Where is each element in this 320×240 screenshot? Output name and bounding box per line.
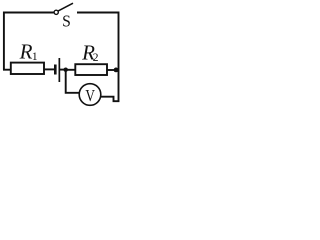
node B junction dot <box>114 68 119 73</box>
svg-text:S: S <box>62 11 71 31</box>
resistor R2 box <box>75 64 107 75</box>
wire R2 to node B <box>107 69 119 71</box>
wire R1 to battery <box>44 68 54 70</box>
svg-text:1: 1 <box>32 51 38 63</box>
battery short thick plate <box>54 65 57 75</box>
svg-text:V: V <box>85 87 95 106</box>
wire node A to R2 <box>66 69 76 71</box>
wire voltmeter left branch <box>66 70 80 93</box>
switch S terminal circle <box>54 10 58 14</box>
resistor R1 box <box>11 63 44 74</box>
battery long plate <box>59 58 61 82</box>
wire top-right segment and right vertical <box>77 13 119 102</box>
voltmeter U1 circle <box>79 84 101 106</box>
background <box>0 0 123 109</box>
wire battery to node A <box>60 69 67 71</box>
svg-text:R: R <box>19 40 33 64</box>
wire top-left segment <box>4 13 54 70</box>
switch S blade <box>58 3 73 11</box>
svg-text:2: 2 <box>93 52 99 64</box>
wire stub left to R1 <box>3 69 11 71</box>
node A junction dot <box>63 68 67 72</box>
